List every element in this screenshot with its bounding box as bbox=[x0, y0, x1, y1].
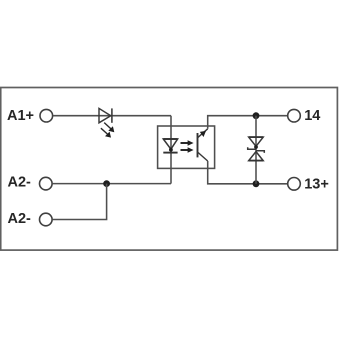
svg-text:14: 14 bbox=[304, 108, 320, 124]
wire internal LED cathode down to A2 rail bbox=[106, 183, 171, 185]
wire A2 rail bbox=[52, 183, 106, 185]
LED D1 emission arrow 2 bbox=[101, 128, 111, 137]
terminal A2- second bbox=[40, 213, 53, 226]
wire A2 second to junction bbox=[52, 184, 106, 220]
optocoupler internal LED apex dot bbox=[169, 148, 173, 152]
node junction dot A2 bbox=[103, 180, 110, 187]
optocoupler internal LED cathode bar bbox=[163, 152, 177, 154]
phototransistor Q1 collector diagonal bbox=[198, 129, 208, 138]
light arrow 1 bbox=[181, 140, 194, 146]
wire A1+ to LED D1 bbox=[53, 115, 171, 117]
TVS suppressor D2 bottom triangle bbox=[249, 152, 264, 161]
LED D1 triangle bbox=[99, 108, 111, 122]
TVS suppressor D2 center dot bbox=[254, 145, 258, 149]
node junction dot top (TVS to 14 rail) bbox=[253, 112, 260, 119]
phototransistor Q1 base bbox=[197, 133, 199, 157]
terminal 13+ bbox=[288, 178, 301, 191]
terminal 14 bbox=[288, 109, 301, 122]
TVS suppressor D2 top triangle bbox=[249, 137, 264, 146]
LED D1 cathode bar bbox=[111, 108, 113, 122]
svg-text:A2-: A2- bbox=[8, 211, 32, 227]
svg-text:A1+: A1+ bbox=[7, 108, 34, 124]
wire collector up to node 14 rail bbox=[208, 116, 288, 129]
svg-text:A2-: A2- bbox=[8, 175, 32, 191]
wire TVS vertical bbox=[255, 116, 257, 184]
light arrow 2 bbox=[181, 147, 194, 153]
node junction dot bottom (TVS to 13 rail) bbox=[253, 180, 260, 187]
optocoupler internal LED triangle bbox=[163, 139, 177, 149]
terminal A1+ bbox=[40, 109, 53, 122]
LED D1 emission arrow 1 bbox=[104, 123, 114, 133]
terminal A2- first bbox=[40, 177, 53, 190]
svg-text:13+: 13+ bbox=[304, 177, 329, 193]
wire emitter down to node 13 rail bbox=[208, 161, 288, 184]
TVS suppressor D2 center Z-bar bbox=[248, 147, 265, 153]
border frame bbox=[1, 88, 338, 251]
phototransistor Q1 collector arrow bbox=[200, 131, 206, 137]
optocoupler U1 body bbox=[158, 126, 215, 168]
phototransistor Q1 emitter diagonal bbox=[198, 152, 208, 161]
wire LED to optocoupler input (corner) bbox=[170, 116, 172, 184]
